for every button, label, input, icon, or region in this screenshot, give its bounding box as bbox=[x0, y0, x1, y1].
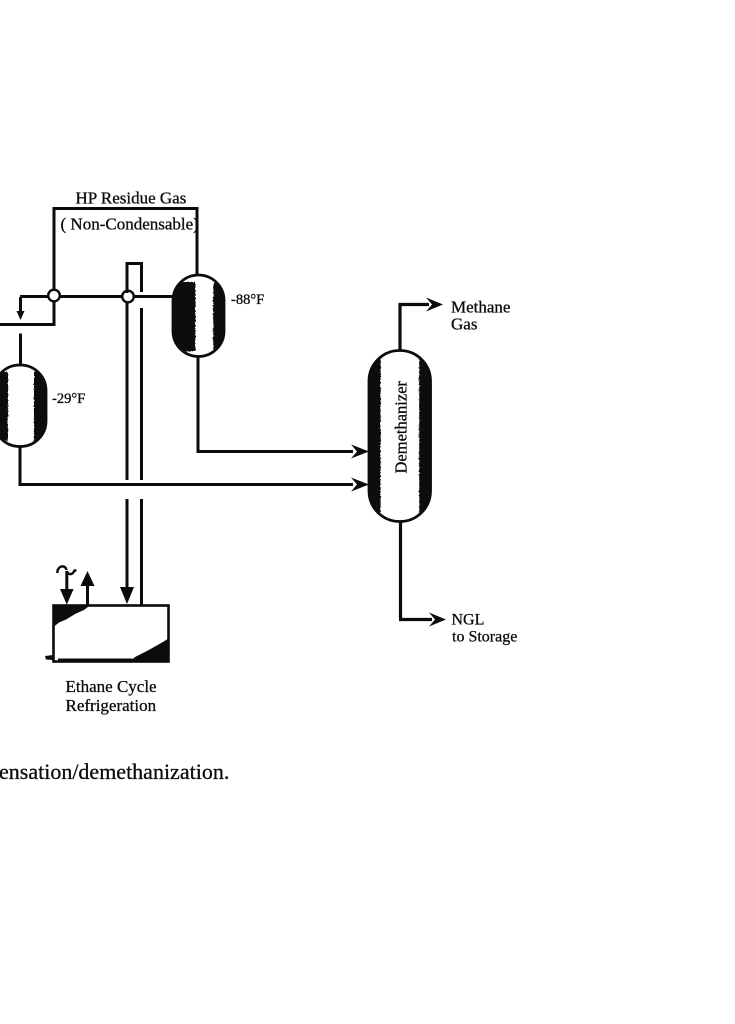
wire squiggle down-arrow shaft bbox=[65, 571, 68, 590]
wire stub drop with arrow to -29F feed bbox=[19, 297, 22, 312]
svg-text:Refrigeration: Refrigeration bbox=[66, 696, 157, 715]
wire refrigerant right leg middle segment bbox=[140, 308, 143, 480]
demethanizer column body bbox=[369, 351, 431, 522]
arrowhead stub down bbox=[17, 311, 25, 320]
svg-text:to Storage: to Storage bbox=[452, 629, 517, 646]
wire vapor return up-arrow shaft bbox=[86, 583, 89, 606]
wire L-drop from node J1 exiting page left bbox=[0, 296, 56, 325]
wire V2 bottom outlet and bend bbox=[19, 446, 354, 485]
svg-text:Gas: Gas bbox=[451, 315, 477, 334]
separator V1 (-88F) vessel body bbox=[171, 275, 226, 357]
wire refrigerant right leg lower segment bbox=[140, 499, 143, 606]
ethane cycle refrigeration box bbox=[45, 605, 169, 663]
arrowhead NGL bbox=[429, 613, 446, 627]
wire HP residue gas header line bbox=[54, 207, 198, 210]
arrowhead feed 1 bbox=[351, 445, 369, 459]
wire right downcomer from HP line to separator V1 top bbox=[196, 207, 199, 276]
arrowhead refrigerant left leg into box bbox=[120, 587, 134, 604]
arrowhead squiggle into box bbox=[60, 589, 74, 605]
wire refrigerant U-bend above node J2 bbox=[127, 264, 142, 294]
wire main horizontal header J1 to V1 inlet bbox=[20, 295, 174, 298]
refrigerant squiggle inlet symbol bbox=[57, 566, 76, 574]
node J1 junction circle bbox=[48, 290, 60, 302]
svg-text:NGL: NGL bbox=[452, 612, 485, 629]
wire feed line 1 to demethanizer bbox=[197, 450, 354, 453]
wire NGL bottoms line bbox=[399, 521, 432, 620]
wire left downcomer from HP line to node J1 bbox=[53, 207, 56, 292]
wire refrigerant left leg J2 down bbox=[126, 303, 129, 480]
svg-text:Ethane Cycle: Ethane Cycle bbox=[66, 677, 157, 696]
svg-text:-29°F: -29°F bbox=[52, 391, 85, 407]
svg-text:ensation/demethanization.: ensation/demethanization. bbox=[0, 759, 229, 784]
svg-text:Demethanizer: Demethanizer bbox=[392, 380, 411, 473]
arrowhead methane gas bbox=[426, 298, 443, 312]
arrowhead feed 2 bbox=[351, 478, 369, 492]
node J2 junction circle bbox=[122, 291, 134, 303]
arrowhead vapor return up bbox=[81, 571, 95, 586]
wire feed into separator V2 top bbox=[19, 334, 22, 368]
svg-text:-88°F: -88°F bbox=[231, 292, 264, 308]
svg-text:HP Residue Gas: HP Residue Gas bbox=[76, 189, 187, 208]
wire V1 bottom outlet bbox=[197, 356, 200, 452]
wire methane gas overhead line bbox=[399, 305, 430, 352]
svg-text:( Non-Condensable): ( Non-Condensable) bbox=[61, 215, 199, 234]
separator V2 (-29F) vessel body bbox=[0, 365, 46, 447]
wire refrigerant left leg lower segment bbox=[126, 499, 129, 588]
